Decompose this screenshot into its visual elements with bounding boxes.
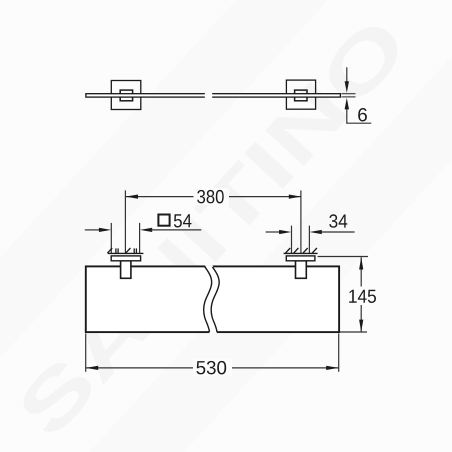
bracket R hatch: [285, 248, 317, 253]
bracket L hatch: [107, 248, 136, 253]
dim 145: top ext line: [318, 256, 368, 258]
bracket L wall plate: [111, 256, 140, 261]
bracket R outer square (top view): [286, 80, 315, 109]
bracket L inner rect (top view): [120, 90, 132, 101]
bracket R inner rect (top view): [295, 90, 307, 101]
dim 54 text: [174, 214, 192, 227]
dim 34 text: [329, 214, 347, 228]
dim 380 arrows: [126, 195, 138, 199]
dim 145 arrows: [359, 257, 363, 269]
break gap in shelf profile: [205, 92, 212, 99]
dim 145 text: [346, 287, 380, 306]
dim 34: right outside arrow + leader: [310, 230, 322, 234]
dim 34: left outside arrow: [266, 231, 281, 233]
dim 530 text: [193, 359, 232, 377]
dim 530: ext lines: [85, 334, 87, 372]
bracket L outer square (top view): [111, 81, 141, 110]
break curve 1: [204, 267, 212, 332]
bracket R (front view): wall line: [284, 252, 318, 254]
bracket L stem: [121, 261, 131, 279]
bracket L (front view): wall line: [108, 252, 144, 254]
dim 54: right outside arrow + leader: [140, 228, 152, 232]
dim text 6: [358, 108, 367, 122]
dim 54: left outside arrow: [85, 229, 101, 231]
extension lines right of shelf end: [342, 93, 356, 95]
dim 34: ext lines: [291, 226, 293, 254]
shelf profile (edge-on, top view): [86, 94, 341, 97]
break curve 2: [211, 267, 219, 332]
dim 530 arrows: [86, 366, 98, 370]
dim 6: lower leader + arrow up: [345, 98, 349, 110]
dim 380 line: [126, 196, 301, 198]
center ext line L: [124, 190, 126, 253]
dim 54 square symbol: [158, 215, 169, 226]
dim 145: line: [360, 257, 362, 332]
dim 54: ext lines: [110, 223, 112, 254]
dim 530: line: [86, 367, 339, 369]
dim 380 text: [194, 188, 230, 205]
center ext line R: [300, 190, 302, 253]
bracket R wall plate: [286, 256, 315, 261]
shelf body (front view): [86, 266, 339, 332]
break band (front view): [204, 265, 220, 333]
dim 6: upper leader + arrow down: [346, 67, 348, 81]
dim 145: bottom ext line: [340, 331, 367, 333]
bracket R stem: [296, 261, 307, 279]
